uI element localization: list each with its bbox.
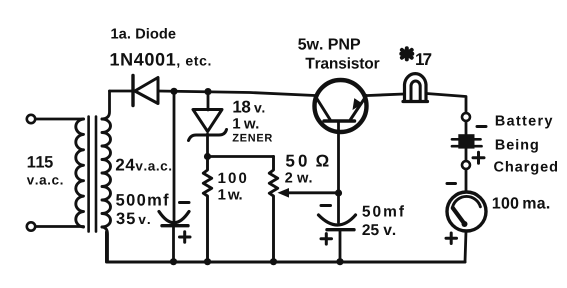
label: Being [496, 139, 538, 153]
transistor Q1 base lead [337, 121, 340, 193]
meter M1 pivot [462, 221, 468, 227]
label: ZENER [233, 134, 273, 142]
node junction zener bottom [204, 153, 211, 160]
node rail potentiometer [270, 258, 277, 265]
polarity plus C1 [180, 232, 191, 243]
label: 5w. PNP [298, 39, 360, 50]
wire battery to meter [465, 169, 468, 192]
wire base node to cap50 [337, 193, 340, 223]
polarity minus C2 [321, 204, 331, 207]
transformer T1 secondary winding [102, 119, 111, 227]
label: Transistor [306, 57, 380, 68]
meter M1 circle [447, 192, 486, 231]
wire lamp to right corner [427, 94, 467, 114]
label: 1 w. zener [233, 118, 258, 128]
node rail resistor100 [204, 258, 211, 265]
potentiometer R2 wiper line [287, 191, 339, 194]
wire cap500 branch upper [173, 91, 176, 222]
wire secondary bottom drop [102, 227, 108, 262]
label: 18 v. [233, 101, 264, 113]
capacitor C2 50mf straight plate [327, 228, 354, 231]
transistor Q1 circle [315, 80, 367, 132]
label: 1N4001, etc. [111, 53, 211, 68]
label: 50mf [362, 205, 404, 216]
diode D1 triangle [135, 78, 158, 104]
label: 1 w. resistor [219, 189, 242, 199]
label: 25 v. [362, 224, 395, 235]
label: Battery [496, 116, 553, 129]
label: 2 w. [285, 172, 311, 182]
node rail cap50 [336, 258, 343, 265]
terminal battery bottom [462, 161, 470, 169]
wire input top [36, 118, 84, 121]
battery B1 plate upper [452, 138, 481, 141]
transistor Q1 emitter [316, 97, 331, 120]
potentiometer R2 body [269, 157, 277, 263]
capacitor C1 500mf straight plate [162, 224, 188, 227]
wire secondary top riser [102, 91, 110, 119]
label: asterisk [401, 48, 412, 59]
meter M1 scale arc [453, 196, 481, 206]
wire transistor to lamp [368, 94, 404, 96]
lamp L1 filament loop [411, 81, 420, 101]
transistor Q1 collector [351, 96, 367, 120]
polarity minus C1 [180, 201, 190, 204]
label: 100 ma. [493, 197, 549, 208]
terminal input bottom [27, 222, 35, 230]
wire zener to node [206, 134, 209, 157]
terminal input top [27, 115, 35, 123]
battery B1 plate lower [452, 145, 482, 148]
wire zener branch upper [207, 91, 210, 110]
node junction wiper/base/cap [335, 189, 342, 196]
label: 500mf [116, 194, 169, 206]
capacitor C2 50mf curved plate [319, 215, 356, 225]
polarity plus C2 [321, 234, 332, 245]
node junction cap500 top [170, 88, 177, 95]
capacitor C1 500mf curved plate [159, 212, 189, 223]
polarity plus battery [473, 152, 484, 163]
wire node to potentiometer [208, 155, 274, 158]
polarity minus battery [477, 125, 486, 128]
wire cap50 to rail [339, 231, 342, 263]
terminal battery top [462, 113, 470, 121]
potentiometer R2 wiper arrowhead [278, 188, 290, 198]
wire meter to rail [465, 231, 466, 262]
wire input bottom [36, 225, 84, 228]
label: 115 [28, 156, 53, 168]
label: 50 ohm [286, 155, 329, 167]
meter M1 needle [453, 208, 465, 225]
zener diode D2 bar [189, 130, 227, 141]
transistor Q1 arrowhead [353, 98, 363, 110]
lamp L1 envelope [403, 74, 428, 102]
node rail cap500 [170, 258, 177, 265]
label: 1a. Diode [111, 28, 175, 39]
label: 17 [416, 53, 431, 65]
transistor Q1 base bar [324, 119, 355, 123]
wire top rail to transistor [158, 91, 315, 96]
battery B1 body block [458, 134, 474, 148]
wire battery bottom lead [465, 149, 468, 161]
wire cap500 branch lower [172, 227, 175, 263]
wire top-left horizontal [110, 90, 132, 93]
label: 100 [219, 173, 247, 184]
resistor R1 100 ohm [203, 157, 211, 263]
label: Charged [494, 161, 557, 175]
transformer T1 primary winding [76, 119, 84, 227]
polarity minus meter [447, 182, 456, 185]
label: 35v. [116, 213, 149, 225]
transformer T1 core [89, 117, 96, 232]
diode D1 cathode bar [131, 76, 134, 106]
zener diode D2 triangle [193, 110, 222, 132]
wire bottom rail [107, 232, 466, 262]
label: v.a.c. [27, 177, 63, 184]
polarity plus meter [446, 233, 457, 244]
label: 24v.a.c. [116, 159, 171, 171]
wire battery top lead [465, 121, 468, 135]
node junction zener top [204, 88, 211, 95]
